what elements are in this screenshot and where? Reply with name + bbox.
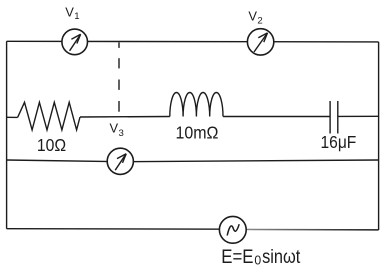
- svg-text:V: V: [248, 8, 257, 23]
- label V1: [65, 5, 79, 22]
- label E = E0 sin wt: [221, 247, 301, 268]
- inductor L 10 mOhm: [170, 92, 223, 116]
- svg-text:sinωt: sinωt: [262, 247, 301, 268]
- capacitor C 16uF left plate: [329, 101, 331, 134]
- wire: middle rail left stub: [7, 116, 18, 118]
- AC source E: [219, 216, 246, 243]
- label V3: [110, 120, 124, 138]
- svg-text:10Ω: 10Ω: [37, 135, 66, 155]
- voltmeter V3: [107, 148, 133, 174]
- wire: left vertical rail: [6, 41, 8, 229]
- wire: bottom rail right of source: [240, 228, 379, 231]
- wire: top rail: [7, 40, 379, 43]
- svg-text:10mΩ: 10mΩ: [176, 122, 219, 142]
- svg-text:3: 3: [119, 128, 124, 139]
- svg-text:E=E: E=E: [221, 247, 253, 268]
- wire: middle rail between inductor and capacitor: [223, 116, 330, 118]
- wire: third rail (voltmeter V3 branch): [7, 160, 379, 162]
- svg-text:V: V: [65, 5, 74, 20]
- resistor R 10 ohm: [18, 102, 80, 130]
- wire: middle rail right stub: [338, 115, 379, 117]
- svg-text:16μF: 16μF: [321, 132, 357, 152]
- wire: right vertical rail: [378, 42, 380, 230]
- voltmeter V1: [62, 29, 88, 55]
- svg-text:0: 0: [254, 253, 261, 268]
- wire: middle rail between resistor and inductor: [80, 116, 170, 119]
- wire: bottom rail left of source: [7, 228, 233, 231]
- voltmeter V2: [247, 29, 273, 55]
- svg-text:2: 2: [257, 16, 262, 27]
- svg-text:1: 1: [74, 11, 79, 22]
- capacitor C 16uF right plate: [337, 101, 339, 134]
- label V2: [248, 8, 262, 26]
- dashed node marker line below top rail: [118, 42, 120, 111]
- svg-text:V: V: [110, 120, 119, 135]
